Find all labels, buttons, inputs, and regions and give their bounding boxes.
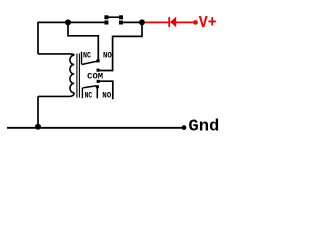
bottom pivot contact (96, 85, 99, 88)
node A (65, 19, 71, 25)
wire coil bottom down to ground rail (37, 96, 39, 127)
Gnd terminal dot (182, 125, 187, 130)
relay core lines (76, 54, 78, 98)
diode D1 cathode bar (168, 17, 170, 27)
wire left branch down to coil top (37, 22, 39, 54)
ground rail (7, 127, 182, 129)
ground junction dot (35, 124, 41, 130)
svg-text:V+: V+ (199, 13, 217, 32)
bottom NC stub (81, 88, 83, 98)
bottom armature lever (83, 86, 97, 88)
top NC stub (81, 52, 83, 65)
V+ terminal dot (193, 20, 198, 25)
wire top rail left segment (node A to switch) (38, 21, 104, 23)
top pivot contact (97, 59, 100, 62)
svg-text:NC: NC (83, 52, 91, 61)
wire switch right to node B (123, 21, 142, 23)
switch S1 actuator squares and bar (104, 15, 108, 19)
wire bottom pivot stub down (96, 88, 98, 98)
node B (139, 19, 145, 25)
relay coil loops (70, 55, 74, 93)
svg-text:NC: NC (85, 92, 93, 101)
relay coil top wire (38, 54, 74, 55)
wire node B down left and down to top NO contact (99, 22, 142, 70)
wire red diode to V+ (176, 21, 194, 23)
svg-text:NO: NO (102, 92, 111, 101)
wire bottom NO contact right and down (99, 81, 113, 99)
bottom NO contact (97, 80, 100, 83)
diode D1 triangle (170, 17, 176, 28)
wire red from node B to diode (145, 21, 168, 23)
svg-text:COM: COM (87, 73, 103, 82)
top armature lever (82, 61, 98, 65)
svg-text:Gnd: Gnd (188, 118, 219, 137)
relay coil bottom wire (38, 93, 74, 97)
svg-text:NO: NO (103, 52, 112, 61)
wire node A down and right to top pivot (68, 22, 98, 60)
switch S1 contact squares (104, 21, 108, 25)
top NO contact (97, 69, 100, 72)
